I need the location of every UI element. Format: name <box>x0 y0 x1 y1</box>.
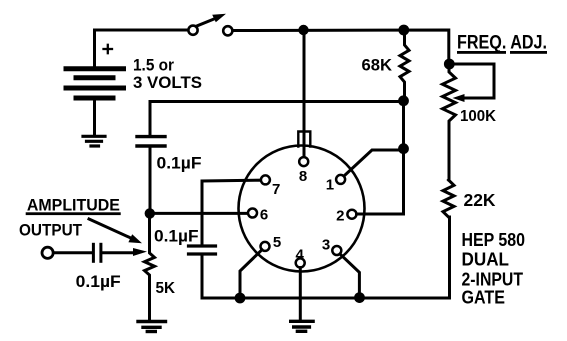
wire pin 5 to bottom rail <box>240 250 262 295</box>
battery plus sign <box>104 45 113 53</box>
wire pin 2 to node B <box>357 152 404 214</box>
svg-text:0.1µF: 0.1µF <box>157 155 202 173</box>
svg-text:100K: 100K <box>460 108 496 125</box>
svg-text:3: 3 <box>322 237 330 254</box>
junction 100K top <box>444 59 455 70</box>
ground pin 4 <box>291 321 313 331</box>
wiper arrow 100K <box>453 94 465 102</box>
svg-text:22K: 22K <box>464 190 496 210</box>
switch S1 <box>188 14 232 36</box>
svg-text:5K: 5K <box>156 280 176 297</box>
svg-text:5: 5 <box>273 234 281 251</box>
battery B1 <box>66 69 124 98</box>
wire 100K wiper loop <box>449 64 494 98</box>
arrow amplitude to 5K wiper <box>89 219 133 239</box>
pin 3 <box>332 246 341 255</box>
junction pins 1-2 node B <box>398 143 409 154</box>
bottom rail wire <box>240 217 450 298</box>
wire pin 7 to capacitor C2 <box>202 180 261 243</box>
pin 4 <box>296 258 305 267</box>
capacitor C1 0.1uF <box>137 137 165 146</box>
wire pin 4 to ground <box>299 268 302 320</box>
IC index notch <box>298 132 310 147</box>
junction bottom rail pin 5 <box>235 293 246 304</box>
svg-text:OUTPUT: OUTPUT <box>19 221 83 240</box>
wire node C to pin 6 <box>150 212 248 215</box>
wire node A to pins 1-2 junction <box>402 101 405 149</box>
junction 68K bottom node A <box>398 95 409 106</box>
svg-text:6: 6 <box>260 207 268 224</box>
junction bottom rail pin 3 <box>354 292 365 303</box>
svg-text:1.5 or: 1.5 or <box>133 56 174 75</box>
wire C3 to 5K wiper <box>102 251 132 254</box>
pin 6 <box>248 209 257 218</box>
wire top rail switch to freq-adj corner <box>233 30 449 61</box>
svg-text:HEP 580: HEP 580 <box>462 230 526 250</box>
resistor 22K <box>443 180 454 217</box>
svg-text:68K: 68K <box>362 56 393 75</box>
pin 8 <box>299 157 308 166</box>
wire node A to capacitor C1 <box>150 102 404 135</box>
svg-text:2: 2 <box>336 208 344 225</box>
svg-text:8: 8 <box>299 168 307 185</box>
potentiometer 5K <box>145 213 155 320</box>
wire pin 8 drop <box>303 30 306 157</box>
svg-text:FREQ. ADJ.: FREQ. ADJ. <box>457 33 547 54</box>
pin 2 <box>347 210 356 219</box>
capacitor C3 0.1uF <box>93 244 101 261</box>
junction top rail to 68K <box>398 25 409 36</box>
wire battery negative to ground <box>93 100 96 135</box>
svg-text:DUAL: DUAL <box>462 250 510 270</box>
pin 1 <box>336 175 345 184</box>
output terminal <box>42 247 53 258</box>
svg-text:GATE: GATE <box>462 288 506 308</box>
potentiometer 100K <box>443 61 456 180</box>
svg-text:4: 4 <box>296 247 305 264</box>
wire pin 3 to bottom rail <box>340 254 359 294</box>
IC U1 HEP 580 can outline <box>239 146 365 272</box>
wire output terminal to C3 <box>53 251 92 254</box>
svg-text:0.1µF: 0.1µF <box>76 273 121 291</box>
label AMPLITUDE <box>26 195 121 215</box>
pin 7 <box>261 175 270 184</box>
junction node C <box>145 208 155 218</box>
svg-text:1: 1 <box>326 177 334 194</box>
svg-text:2-INPUT: 2-INPUT <box>462 270 524 290</box>
wire battery positive to switch <box>95 30 188 66</box>
battery value label 1.5 or 3 VOLTS <box>133 56 202 93</box>
label HEP 580 DUAL 2-INPUT GATE <box>462 230 526 308</box>
junction top rail to pin 8 <box>298 25 308 35</box>
capacitor C2 0.1uF <box>189 246 216 254</box>
svg-text:7: 7 <box>272 181 280 198</box>
svg-text:3 VOLTS: 3 VOLTS <box>133 73 202 92</box>
wire pin 1 to node B <box>344 150 404 176</box>
wiper arrow 5K <box>133 248 147 256</box>
ground battery <box>83 136 105 146</box>
pin 5 <box>261 242 270 251</box>
label FREQ. ADJ. <box>457 33 547 54</box>
svg-text:AMPLITUDE: AMPLITUDE <box>27 195 120 214</box>
ground 5K <box>138 322 166 332</box>
wire C1 to node C <box>149 148 152 214</box>
wire C2 to bottom rail <box>202 256 240 299</box>
svg-text:0.1µF: 0.1µF <box>154 228 199 246</box>
resistor 68K <box>400 30 409 98</box>
